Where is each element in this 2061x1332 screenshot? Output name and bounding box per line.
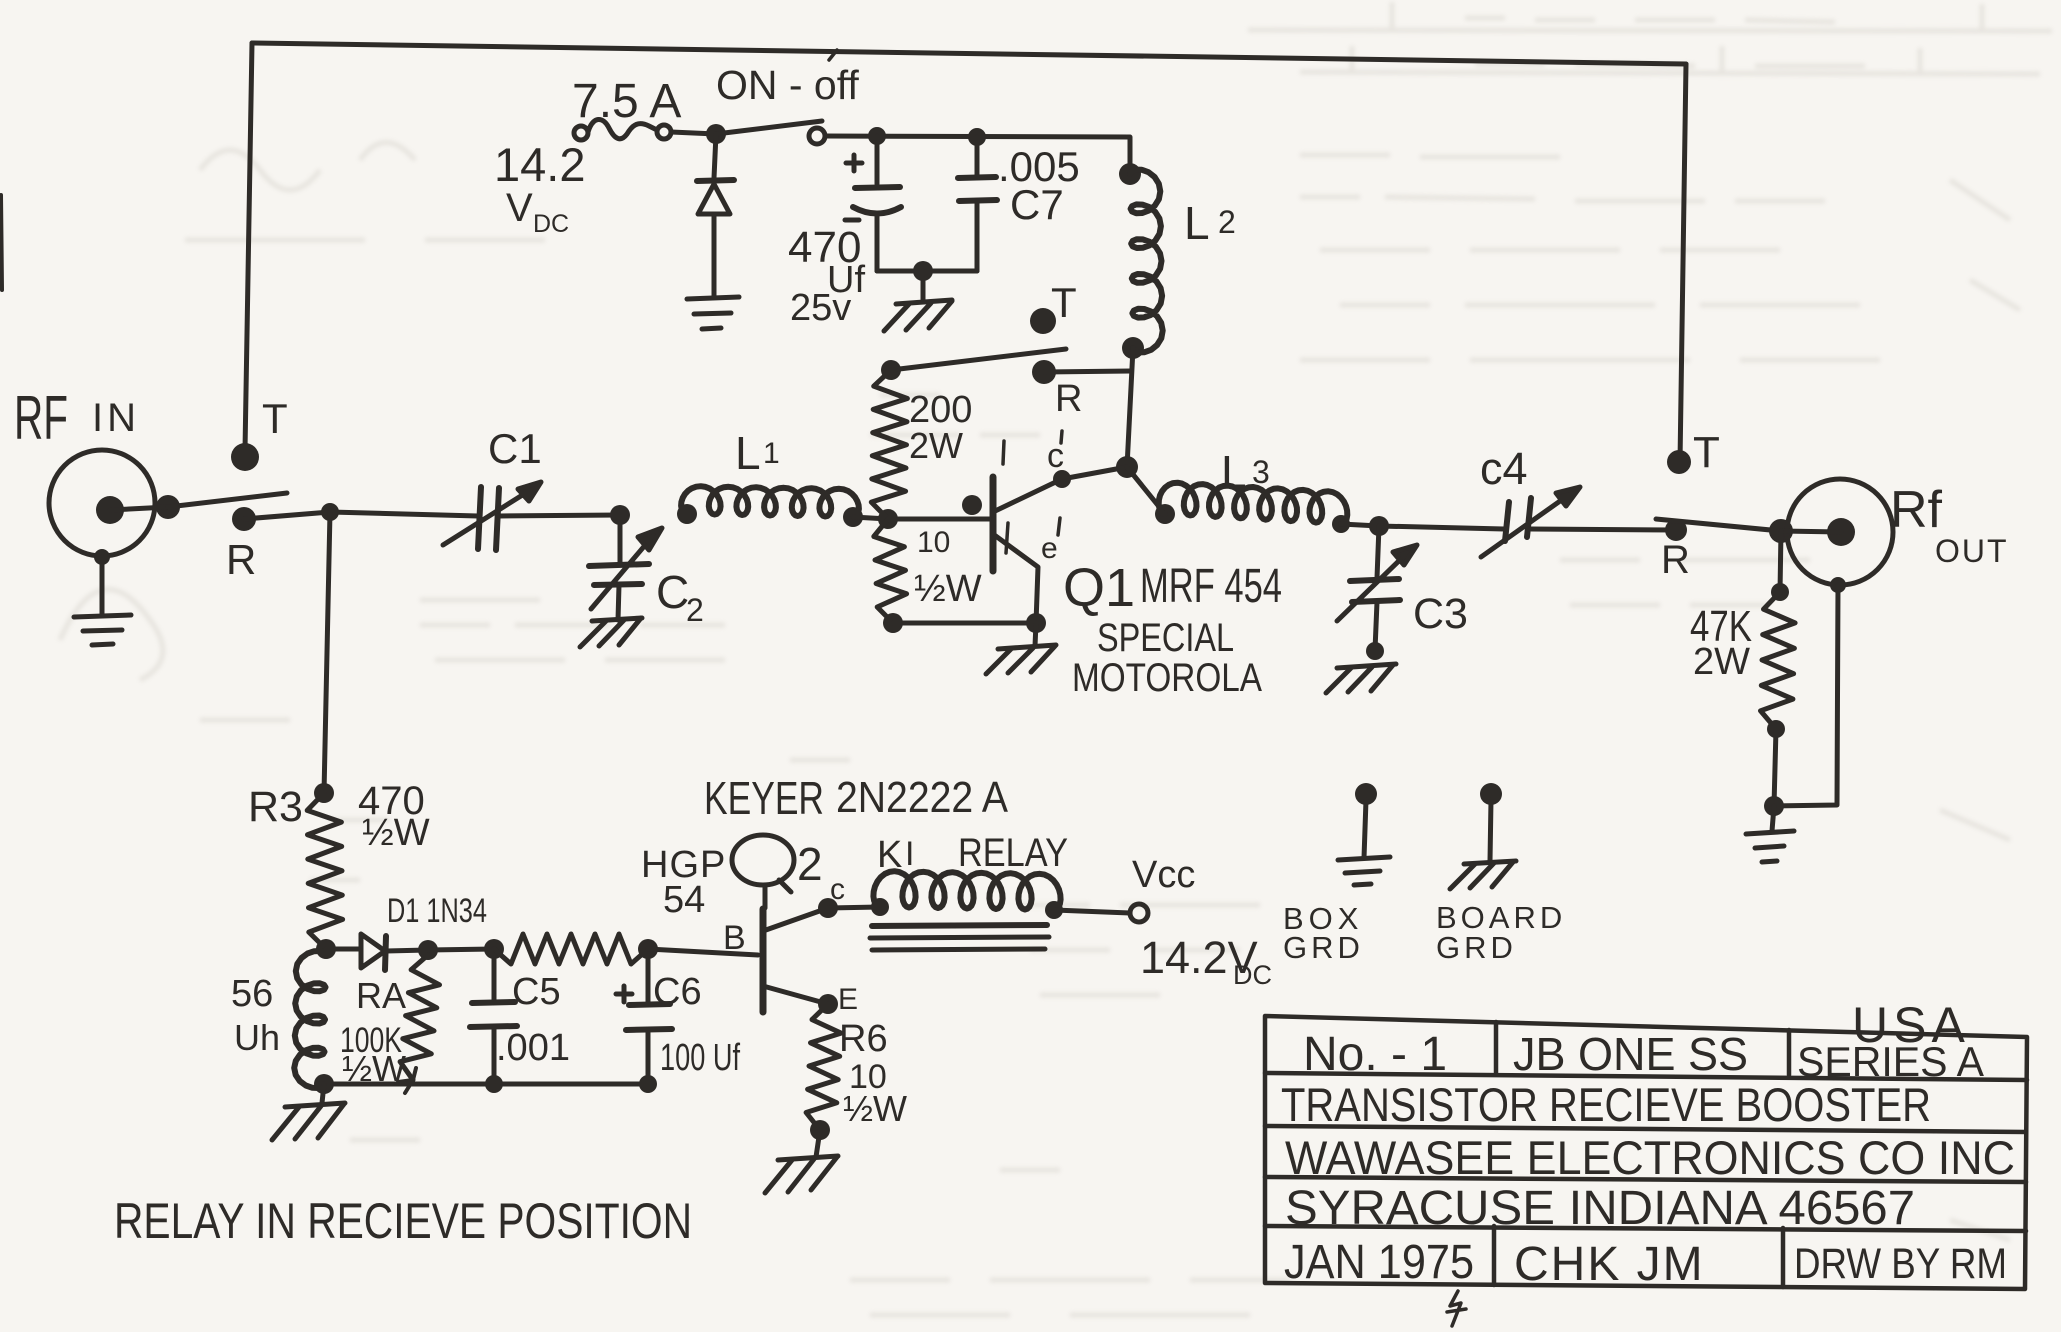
node c (Q2 collector) [818,873,845,918]
svg-text:54: 54 [663,879,705,921]
svg-text:R3: R3 [248,783,303,831]
svg-text:OUT: OUT [1935,533,2009,569]
svg-text:L: L [735,427,761,479]
wire C3 node to C4 [1379,526,1504,529]
tick on top rail [829,50,837,60]
ground (C3) [1326,642,1396,693]
junction C6 top [638,939,658,959]
svg-text:B: B [723,919,746,957]
resistor R2 10 1/2W [874,519,982,633]
wire switch to L2 corner [825,136,1130,174]
switch S1c arm (bias T/R) [891,349,1066,370]
svg-text:Rf: Rf [1890,481,1943,539]
resistor R4 100K 1/2W [340,955,440,1093]
svg-text:R: R [226,536,256,583]
wire collector to L3 [1127,467,1165,514]
ground (C2) [580,618,642,647]
svg-text:C5: C5 [512,971,561,1013]
squiggle under title block [1447,1291,1466,1326]
svg-text:K: K [877,834,902,876]
svg-text:½W: ½W [362,812,430,854]
svg-text:10: 10 [917,526,950,559]
svg-text:56: 56 [231,973,273,1015]
wire D1 to C5 node [428,949,494,950]
collector junction node [1116,456,1138,478]
svg-text:14.2: 14.2 [494,138,585,191]
svg-text:c: c [830,873,845,906]
svg-text:RF: RF [14,384,68,453]
node R (bias) [1032,360,1082,420]
wire to C1 [330,512,478,516]
capacitor C3 (variable, shunt) [1337,526,1468,650]
ground (RF IN shield) [74,615,131,645]
title block frame [1265,1016,2027,1289]
wire C6 node to Q2 base [648,949,758,955]
svg-text:C1: C1 [488,425,542,472]
capacitor C7 .005 [958,137,1080,271]
inductor 56 Uh [231,951,326,1088]
transistor Q1 MRF454 [888,431,1127,623]
svg-text:DRW BY RM: DRW BY RM [1794,1240,2007,1288]
wire L2 to collector node [1127,348,1133,467]
svg-text:R6: R6 [839,1018,888,1060]
svg-text:MOTOROLA: MOTOROLA [1072,656,1262,700]
capacitor C8 470uF 25V [788,136,901,329]
svg-text:100 Uf: 100 Uf [660,1037,740,1079]
svg-text:CHK JM: CHK JM [1514,1238,1705,1291]
svg-text:V: V [506,186,533,230]
svg-text:RELAY: RELAY [958,831,1068,875]
wire C1 to node [499,515,620,516]
svg-text:D1 1N34: D1 1N34 [387,892,487,930]
svg-text:JAN 1975: JAN 1975 [1284,1236,1474,1289]
svg-text:2: 2 [686,592,704,628]
svg-text:DC: DC [533,210,569,238]
svg-text:Uh: Uh [234,1017,280,1058]
svg-text:L: L [1184,197,1210,249]
svg-text:½W: ½W [914,568,982,610]
svg-text:ON - off: ON - off [716,62,859,108]
resistor R5 47K 2W [1690,531,1795,806]
junction at RF OUT [1769,519,1793,543]
capacitor C1 (variable) [443,425,542,550]
junction C3 node [1369,516,1389,536]
junction 47K / shield [1764,796,1784,816]
resistor R3 470 1/2W [248,779,430,949]
svg-text:c: c [1047,437,1064,475]
wire R contact to main line [244,512,330,519]
diode D1 1N34 [326,892,487,970]
transistor Q2 2N2222A [732,835,828,1012]
svg-text:T: T [262,395,288,442]
svg-text:R: R [1055,378,1082,420]
capacitor C2 (variable, shunt) [589,515,704,628]
svg-text:1: 1 [763,437,780,470]
switch S1a arm (RF IN T/R) [168,493,287,507]
node R (output) [1661,519,1690,582]
svg-text:TRANSISTOR RECIEVE BOOSTER: TRANSISTOR RECIEVE BOOSTER [1281,1078,1931,1131]
resistor R1 200 2W [871,360,972,519]
svg-text:R: R [1661,538,1690,582]
svg-text:L: L [1221,446,1247,498]
capacitor C4 (variable) [1480,443,1580,557]
svg-text:e: e [1041,532,1058,565]
junction (C7 tap) [968,128,986,146]
svg-text:WAWASEE ELECTRONICS CO INC: WAWASEE ELECTRONICS CO INC [1285,1131,2015,1184]
switch S2 ON-OFF [706,62,859,144]
capacitor C5 .001 [470,949,570,1084]
fuse F1 7.5A [572,75,681,140]
svg-text:3: 3 [1252,454,1270,490]
junction D1 cathode [418,940,438,960]
svg-text:C3: C3 [1413,590,1468,638]
label HEP 54 [641,844,726,921]
node T (input) [231,395,288,471]
node R (input) [226,507,256,583]
wire RF OUT shield down [1774,585,1838,806]
node T (bias) [1030,279,1077,334]
svg-text:.001: .001 [496,1027,570,1069]
svg-text:Vcc: Vcc [1132,854,1195,896]
junction node B [610,505,630,525]
wire cap commons [877,269,977,274]
wire L3 to C3 node [1341,524,1379,526]
bottom common wire [324,1082,648,1087]
RF OUT connector J2 [1781,479,2009,593]
junction base node [878,509,898,529]
relay K1 coil [828,831,1068,950]
svg-text:SPECIAL: SPECIAL [1097,616,1234,660]
RF IN connector J1 [49,450,180,615]
wire: top transmit rail [252,43,1686,64]
ground (filter caps) [884,271,952,331]
junction (470uF tap) [868,127,886,145]
wire L1 to base node [853,517,888,519]
node E (Q2 emitter) [818,983,858,1016]
svg-text:c4: c4 [1480,443,1528,494]
svg-text:KEYER: KEYER [704,772,824,824]
diode D2 (polarity guard) [697,134,734,297]
wire node A down to R3 [324,512,330,793]
svg-text:E: E [838,983,858,1016]
svg-text:JB ONE SS: JB ONE SS [1513,1028,1748,1080]
svg-text:No. - 1: No. - 1 [1303,1028,1447,1081]
ground (bias network) [272,1084,345,1140]
ground (diode) [687,297,739,329]
wire relay to Vcc [1054,910,1130,913]
junction node A [321,503,339,521]
svg-text:SYRACUSE INDIANA 46567: SYRACUSE INDIANA 46567 [1285,1182,1915,1235]
scan artifact left edge [1,195,2,290]
svg-text:½W: ½W [843,1088,907,1129]
label 14.2 VDC supply [494,138,585,238]
junction filter common [913,261,933,281]
junction R3 bottom [316,939,336,959]
node T (output) [1667,428,1720,477]
wire R bias to collector riser [1044,371,1131,372]
capacitor C6 100uF [616,949,740,1084]
emitter ground wire [893,621,1036,626]
svg-text:I: I [905,835,914,873]
ground (R6) [765,1130,838,1193]
svg-text:C: C [656,566,689,618]
inductor L1 [677,427,863,527]
resistor R6 10 1/2W [806,1004,907,1140]
svg-text:25v: 25v [790,287,851,329]
junction C5 top [484,939,504,959]
wire fuse to switch [671,132,716,134]
svg-text:DC: DC [1233,960,1272,990]
svg-text:RELAY IN RECIEVE POSITION: RELAY IN RECIEVE POSITION [114,1193,692,1249]
svg-text:GRD: GRD [1436,930,1517,965]
svg-text:Q1: Q1 [1063,558,1135,618]
ground (Q1 emitter) [986,623,1056,674]
switch S1b arm (output T/R) [1656,519,1781,531]
svg-text:2N2222 A: 2N2222 A [836,773,1009,822]
wire: right drop to T contact [1680,64,1686,462]
svg-text:RA: RA [356,975,406,1016]
svg-text:GRD: GRD [1283,930,1364,965]
ground (output) [1746,806,1794,862]
inductor L2 [1119,163,1236,359]
wire C4 to R contact [1531,529,1676,530]
terminal Vcc [1130,854,1195,922]
svg-text:7.5 A: 7.5 A [572,75,681,128]
label RF IN [14,384,140,453]
wire: left drop to T contact [245,43,252,450]
svg-text:2: 2 [797,838,823,890]
svg-text:2W: 2W [909,425,963,466]
svg-text:2: 2 [1218,204,1236,240]
board ground symbol [1436,783,1566,965]
svg-text:T: T [1693,428,1720,477]
svg-text:MRF 454: MRF 454 [1140,560,1282,613]
svg-text:IN: IN [92,396,140,440]
label 14.2VDC [1140,932,1272,990]
inductor L3 [1155,446,1350,533]
svg-text:2W: 2W [1693,641,1750,683]
svg-text:C7: C7 [1010,181,1064,228]
resistor R5b (base series) [494,934,648,964]
box ground symbol [1283,783,1390,965]
svg-text:C6: C6 [653,971,702,1013]
svg-text:T: T [1051,279,1077,326]
